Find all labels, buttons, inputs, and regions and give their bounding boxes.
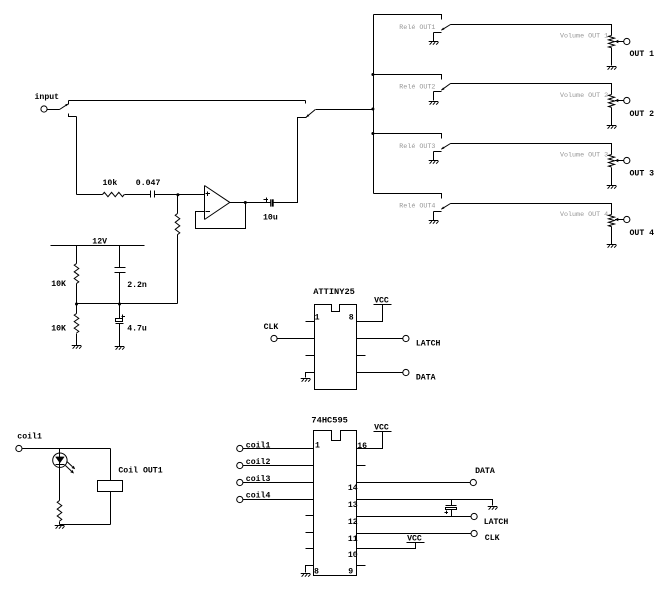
wire coil branch down: [110, 449, 112, 481]
ground pot row4: [607, 244, 617, 246]
svg-text:LATCH: LATCH: [416, 340, 441, 349]
terminal coil2 input: [237, 462, 243, 468]
U2 pin6 stub: [357, 355, 366, 357]
node bus feed junction: [371, 108, 374, 111]
svg-text:14: 14: [348, 484, 358, 493]
terminal OUT1: [624, 38, 630, 44]
potentiometer VR1: [609, 36, 615, 48]
ground pot row3: [607, 185, 617, 187]
power VCC U2: [374, 304, 392, 306]
U2 pin8 wire VCC: [357, 305, 383, 322]
svg-text:DATA: DATA: [475, 467, 495, 476]
wire to R1: [77, 194, 103, 196]
wire relay bus vertical: [373, 15, 375, 194]
potentiometer VR3: [609, 155, 615, 168]
svg-text:Relé OUT1: Relé OUT1: [399, 24, 435, 32]
svg-text:0.047: 0.047: [136, 179, 161, 188]
terminal LATCH: [403, 335, 409, 341]
potentiometer VR2 wiper: [615, 99, 618, 103]
svg-text:Relé OUT4: Relé OUT4: [399, 203, 435, 211]
wire pot to ground row3: [611, 168, 613, 186]
terminal coil1 input: [237, 445, 243, 451]
wire opamp output: [230, 202, 271, 204]
terminal coil1: [16, 445, 22, 451]
wire coil2 to U3: [243, 465, 314, 467]
node divider junction: [75, 303, 78, 306]
svg-text:DATA: DATA: [416, 373, 436, 382]
wire pot to ground row4: [611, 227, 613, 245]
U2 pin1 stub: [306, 321, 315, 323]
svg-text:11: 11: [348, 535, 358, 544]
label C4 plus: [122, 316, 126, 318]
wire opamp feedback: [196, 203, 246, 229]
label C5 plus: [445, 512, 449, 514]
wire input branch down: [76, 117, 78, 195]
wire row1 to pot: [451, 25, 612, 36]
wire pot to ground row2: [611, 108, 613, 126]
svg-text:OUT 4: OUT 4: [630, 229, 655, 238]
ground pin13: [488, 506, 498, 508]
relay K2 contact: [434, 91, 442, 93]
svg-text:10K: 10K: [51, 280, 66, 289]
capacitor C1 0.047: [151, 191, 155, 198]
svg-text:Volume OUT 2: Volume OUT 2: [560, 92, 608, 100]
U3 pin16 wire VCC: [357, 432, 383, 449]
svg-text:2.2n: 2.2n: [127, 281, 147, 290]
U3 pin5 stub: [306, 515, 314, 517]
terminal LATCH out: [471, 513, 477, 519]
ground pot row2: [607, 125, 617, 127]
terminal DATA out: [470, 479, 476, 485]
svg-text:74HC595: 74HC595: [311, 415, 348, 425]
svg-text:Coil OUT1: Coil OUT1: [118, 465, 162, 475]
svg-text:VCC: VCC: [407, 535, 422, 544]
svg-text:OUT 1: OUT 1: [630, 50, 655, 59]
U3 pin15 stub: [357, 465, 366, 467]
potentiometer VR4 wiper: [615, 218, 618, 222]
wire R3 to node: [76, 284, 78, 304]
ground relay K1: [429, 41, 439, 43]
ground relay K2: [429, 101, 439, 103]
svg-text:1: 1: [315, 442, 320, 451]
U3 pin11 wire CLK: [357, 533, 472, 535]
svg-text:CLK: CLK: [264, 323, 279, 332]
node junction R2 tap: [176, 193, 179, 196]
ground U3 pin8: [301, 573, 311, 575]
capacitor C4 4.7u: [119, 304, 121, 319]
switch SW2 contact tick: [305, 101, 307, 104]
IC U2 ATTINY25 body: [315, 305, 357, 390]
svg-text:LATCH: LATCH: [484, 518, 509, 527]
wire R1 to C1: [125, 194, 151, 196]
wire C3 to node: [119, 273, 121, 304]
wire top bus: [69, 100, 306, 102]
wire coil3 to U3: [243, 482, 314, 484]
wire rail to R3: [76, 246, 78, 264]
U2 pin3 stub: [306, 355, 315, 357]
capacitor C2 10u: [270, 199, 272, 206]
input terminal: [41, 106, 47, 112]
node bus junction row3: [371, 132, 374, 135]
svg-text:10u: 10u: [263, 213, 278, 222]
wire coil box down: [110, 492, 112, 525]
terminal DATA: [403, 369, 409, 375]
U2 pin5 wire DATA: [357, 372, 403, 374]
svg-text:9: 9: [348, 568, 353, 577]
svg-text:ATTINY25: ATTINY25: [313, 287, 355, 297]
ground U2 pin4: [301, 378, 311, 380]
svg-text:13: 13: [348, 501, 358, 510]
terminal OUT4: [624, 216, 630, 222]
wire bus stub row1: [374, 15, 442, 20]
relay K2 arm: [441, 88, 444, 91]
relay K4 contact: [434, 211, 442, 213]
terminal OUT3: [624, 157, 630, 163]
U3 pin14 wire DATA: [357, 482, 471, 484]
switch SW1 arm: [60, 104, 68, 109]
wire rail to C3: [119, 246, 121, 268]
wire row4 to pot: [451, 204, 612, 215]
svg-text:coil1: coil1: [17, 431, 42, 441]
svg-text:Volume OUT 3: Volume OUT 3: [560, 152, 608, 160]
ground coil section: [55, 525, 65, 527]
node cap junction: [118, 303, 121, 306]
svg-text:Volume OUT 4: Volume OUT 4: [560, 211, 608, 219]
switch SW1 upper contact tick: [68, 101, 70, 105]
capacitor C5: [446, 505, 457, 507]
U2 pin7 wire LATCH: [357, 338, 403, 340]
ground pot row1: [607, 66, 617, 68]
svg-text:VCC: VCC: [374, 297, 389, 306]
U3 pin8 wire: [306, 566, 314, 573]
wire bus stub row3: [374, 134, 442, 139]
capacitor C5 wire top: [451, 500, 453, 506]
LED D1: [53, 453, 67, 467]
svg-text:8: 8: [314, 568, 319, 577]
U3 pin6 stub: [306, 532, 314, 534]
op-amp U1: [204, 186, 206, 220]
ground relay K3: [429, 160, 439, 162]
U3 pin13 wire: [357, 500, 493, 506]
svg-text:8: 8: [349, 314, 354, 323]
resistor R2: [175, 214, 180, 235]
svg-text:Volume OUT 1: Volume OUT 1: [560, 32, 608, 40]
relay K1 contact: [434, 32, 442, 34]
terminal OUT2: [624, 97, 630, 103]
wire switch to bus: [316, 109, 374, 111]
wire coil1 top: [23, 448, 111, 450]
resistor R4 10K: [76, 304, 78, 314]
node opamp output junction: [244, 201, 247, 204]
wire coil1 to U3: [243, 448, 314, 450]
wire LED branch: [59, 449, 61, 454]
ground R4: [72, 345, 82, 347]
node bus junction row2: [371, 73, 374, 76]
potentiometer VR1 wiper: [615, 40, 618, 44]
svg-text:1: 1: [315, 314, 320, 323]
svg-text:10K: 10K: [51, 325, 66, 334]
power VCC U3 pin10: [407, 542, 425, 544]
U2 pin2 wire CLK: [278, 338, 315, 340]
switch SW2 arm: [306, 114, 309, 117]
terminal coil4 input: [237, 496, 243, 502]
wire input to switch: [48, 109, 60, 111]
IC U3 74HC595 body: [314, 431, 357, 576]
label C2 plus: [264, 199, 269, 201]
relay K3 arm: [441, 147, 444, 150]
wire bus stub row4: [374, 194, 442, 199]
U2 pin4 wire: [306, 373, 315, 378]
svg-text:12: 12: [348, 518, 358, 527]
power VCC U3: [374, 431, 392, 433]
relay K4 arm: [441, 207, 444, 210]
relay K3 contact: [434, 151, 442, 153]
svg-text:10k: 10k: [103, 178, 118, 188]
svg-text:VCC: VCC: [374, 424, 389, 433]
wire bus stub row2: [374, 75, 442, 80]
svg-text:Relé OUT3: Relé OUT3: [399, 143, 435, 151]
svg-text:OUT 2: OUT 2: [630, 110, 655, 119]
wire R2 down: [177, 235, 179, 304]
ground relay K4: [429, 220, 439, 222]
wire divider link: [77, 303, 178, 305]
svg-text:Relé OUT2: Relé OUT2: [399, 83, 435, 91]
svg-text:input: input: [35, 92, 60, 102]
wire coil4 to U3: [243, 499, 314, 501]
wire R5 to bottom: [59, 522, 61, 525]
resistor R1 10k: [103, 192, 125, 196]
relay K1 arm: [441, 28, 444, 31]
terminal coil3 input: [237, 479, 243, 485]
U3 pin12 wire LATCH: [357, 516, 472, 518]
terminal CLK: [271, 335, 277, 341]
wire C1 to opamp: [155, 194, 205, 196]
wire C2 to switch: [274, 118, 307, 203]
terminal CLK out: [471, 530, 477, 536]
svg-text:4.7u: 4.7u: [127, 325, 147, 334]
ground C4: [115, 346, 125, 348]
resistor R3 10K: [74, 264, 79, 284]
potentiometer VR2: [609, 95, 615, 108]
U3 pin10 wire VCC: [357, 543, 416, 549]
potentiometer VR4: [609, 215, 615, 227]
resistor R5: [57, 501, 62, 522]
U3 pin9 stub: [357, 565, 366, 567]
svg-text:16: 16: [357, 442, 367, 451]
U3 pin7 stub: [306, 548, 314, 550]
wire 12V rail: [51, 245, 145, 247]
relay coil K1 box: [98, 481, 123, 492]
potentiometer VR3 wiper: [615, 159, 618, 163]
svg-text:OUT 3: OUT 3: [630, 169, 655, 178]
svg-text:10: 10: [348, 551, 358, 560]
wire row2 to pot: [451, 84, 612, 95]
capacitor C3 2.2n: [115, 267, 126, 269]
wire junction to R2: [177, 195, 179, 214]
wire pot to ground row1: [611, 48, 613, 66]
switch SW1 lower contact: [69, 114, 77, 117]
wire bottom link: [60, 524, 111, 526]
wire row3 to pot: [451, 144, 612, 155]
svg-text:CLK: CLK: [485, 534, 500, 543]
LED D1 light arrows: [67, 461, 73, 467]
